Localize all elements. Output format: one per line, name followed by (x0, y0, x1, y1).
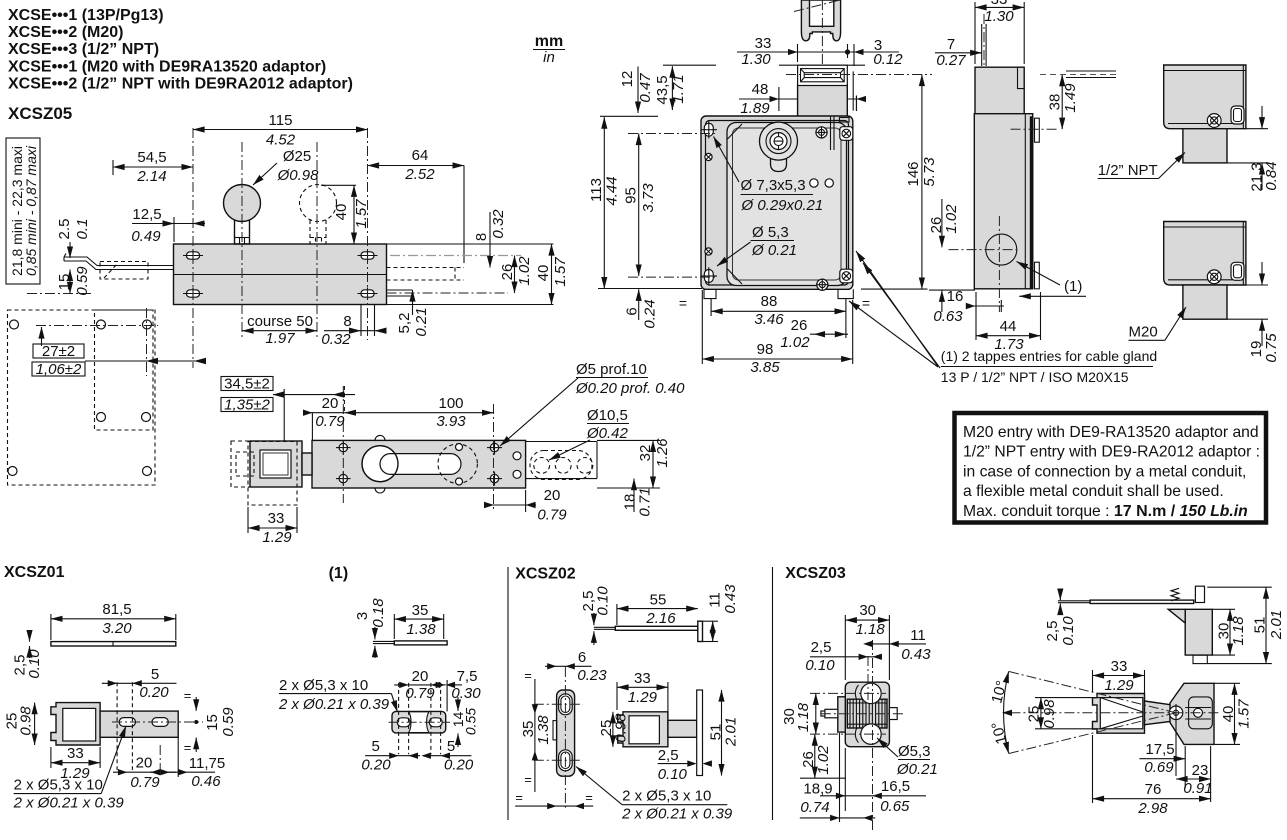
svg-text:Ø 7,3x5,3: Ø 7,3x5,3 (741, 177, 806, 194)
svg-text:(1): (1) (329, 565, 349, 582)
svg-text:course 50: course 50 (247, 313, 313, 330)
dim 5 / 0.20 left (361, 738, 420, 774)
ball actuator (224, 185, 261, 245)
svg-text:0.30: 0.30 (451, 685, 481, 702)
svg-text:=: = (184, 688, 192, 703)
mounting slot top-left (183, 250, 203, 262)
mount oval top-left (701, 121, 717, 139)
svg-text:0.49: 0.49 (131, 228, 161, 245)
svg-text:=: = (862, 295, 870, 311)
svg-text:2 x Ø5,3 x 10: 2 x Ø5,3 x 10 (622, 788, 711, 805)
svg-text:0.69: 0.69 (1144, 759, 1174, 776)
svg-text:43,5: 43,5 (654, 75, 671, 104)
dim 33 / 1.30 head (737, 35, 903, 68)
svg-text:16: 16 (947, 288, 964, 305)
svg-text:2,5: 2,5 (811, 639, 832, 656)
svg-text:1.30: 1.30 (741, 51, 771, 68)
top view head plate (1169, 683, 1214, 744)
svg-text:Ø 0.29x0.21: Ø 0.29x0.21 (741, 197, 824, 214)
mounting slot bottom-left (183, 288, 203, 300)
svg-text:2.5: 2.5 (56, 219, 73, 240)
top plate side view (594, 621, 703, 641)
dim 32 / 1.26 rotated (597, 438, 671, 488)
svg-text:0.63: 0.63 (933, 308, 963, 325)
svg-text:55: 55 (650, 592, 667, 609)
centerlines (821, 713, 904, 715)
body inner margin (706, 121, 849, 286)
svg-text:44: 44 (1000, 318, 1017, 335)
svg-text:0.21: 0.21 (413, 307, 430, 336)
switch body (174, 244, 387, 305)
svg-text:Ø25: Ø25 (283, 148, 311, 165)
plate edge front (697, 690, 703, 776)
svg-text:XCSZ03: XCSZ03 (785, 565, 846, 582)
svg-text:3.46: 3.46 (754, 311, 784, 328)
svg-text:XCSE•••2 (1/2” NPT with DE9RA2: XCSE•••2 (1/2” NPT with DE9RA2012 adapto… (8, 76, 353, 93)
svg-text:0.59: 0.59 (74, 266, 91, 296)
dim 33 / 1.30 top (975, 0, 1024, 64)
swing centerlines 10 deg (1009, 671, 1176, 712)
dim 38 / 1.49 rotated (1011, 75, 1080, 130)
label 1/2" NPT with leader (1098, 153, 1185, 180)
dim 3 / 0.18 rotated (354, 598, 387, 658)
svg-text:Ø5,3: Ø5,3 (898, 743, 931, 760)
svg-text:Ø0.98: Ø0.98 (277, 167, 320, 184)
svg-text:23: 23 (1192, 762, 1209, 779)
dim 20 / 0.79 top (303, 395, 345, 440)
dim 40 / 1.57 rotated (1214, 683, 1253, 744)
clamp block (250, 441, 312, 487)
dim 11 / 0.43 rotated (703, 584, 739, 642)
svg-text:12: 12 (619, 71, 636, 88)
svg-text:0.10: 0.10 (595, 586, 612, 616)
svg-text:1/2” NPT: 1/2” NPT (1098, 162, 1158, 179)
svg-text:98: 98 (757, 341, 774, 358)
svg-text:7,5: 7,5 (457, 668, 478, 685)
horizontal key blade right (1040, 71, 1120, 78)
dim 18 / 0.71 rotated (622, 479, 654, 517)
dim 25 / 0.98 rotated (4, 703, 35, 745)
svg-text:1.89: 1.89 (740, 100, 770, 117)
dashed mounting plate (8, 310, 156, 485)
svg-text:20: 20 (544, 487, 561, 504)
svg-text:0.98: 0.98 (18, 706, 35, 736)
svg-text:76: 76 (1145, 781, 1162, 798)
hinge lines (830, 116, 832, 150)
svg-text:0.55: 0.55 (463, 708, 479, 735)
side body (974, 67, 1032, 289)
svg-text:0.10: 0.10 (805, 657, 835, 674)
mounting slot bottom-right (358, 288, 378, 300)
svg-text:32: 32 (637, 445, 654, 462)
svg-text:2.14: 2.14 (136, 168, 166, 185)
svg-text:2 x Ø5,3 x 10: 2 x Ø5,3 x 10 (279, 677, 368, 694)
plate hole inner-left (97, 320, 106, 329)
dim course 50 / 1.97 (242, 313, 317, 347)
svg-text:3.73: 3.73 (640, 183, 657, 213)
plate hole bottom-left (8, 467, 17, 476)
label (1) with leaders (1017, 262, 1087, 297)
head top edge line (663, 64, 716, 66)
centerline ball (241, 142, 243, 340)
svg-text:1.57: 1.57 (552, 257, 569, 287)
slot ovals (112, 682, 203, 770)
svg-text:0.20: 0.20 (444, 757, 474, 774)
dim 26 / 1.02 rotated (800, 734, 846, 778)
svg-text:35: 35 (412, 602, 429, 619)
svg-text:33: 33 (268, 510, 285, 527)
svg-text:1.30: 1.30 (984, 8, 1014, 25)
mounting slot top-right (358, 250, 378, 262)
thin plate (373, 641, 447, 645)
right tab (889, 708, 897, 720)
side view blade (1058, 600, 1194, 603)
dim 2,5 / 0.10 rotated (580, 586, 612, 645)
svg-text:1/2” NPT entry with DE9-RA2012: 1/2” NPT entry with DE9-RA2012 adaptor : (963, 444, 1260, 461)
svg-text:1.57: 1.57 (1236, 699, 1253, 729)
dim 2,5 / 0.10 rotated (1044, 589, 1077, 646)
svg-text:1.73: 1.73 (994, 336, 1024, 353)
svg-text:2,5: 2,5 (658, 747, 679, 764)
svg-text:0.59: 0.59 (220, 707, 237, 737)
svg-text:5,2: 5,2 (396, 313, 413, 334)
dim 35 / 1.38 (394, 602, 443, 639)
svg-text:(1) 2 tappes entries for cable: (1) 2 tappes entries for cable gland (941, 348, 1157, 364)
svg-text:30: 30 (859, 602, 876, 619)
dim 48 / 1.89 (739, 81, 866, 117)
slot edge extension lines (360, 305, 362, 337)
svg-text:33: 33 (67, 745, 84, 762)
dim 11 / 0.43 (863, 627, 931, 663)
dim 51 / 2.01 rotated (1207, 587, 1285, 663)
svg-text:(1): (1) (1064, 278, 1082, 295)
dim 2.5 / 0.1 rotated (56, 219, 91, 258)
svg-text:0.24: 0.24 (642, 299, 659, 328)
swing arc with arrows (1004, 671, 1009, 753)
bracket arm (668, 720, 697, 737)
svg-text:146: 146 (905, 161, 922, 186)
svg-text:0.27: 0.27 (936, 52, 966, 69)
svg-text:XCSZ02: XCSZ02 (515, 566, 576, 583)
svg-text:1.38: 1.38 (406, 621, 436, 638)
plate hole top-left (10, 320, 19, 329)
key centerline (821, 0, 823, 123)
svg-text:0.98: 0.98 (613, 713, 630, 743)
dashed circle position (438, 444, 477, 486)
svg-text:0.12: 0.12 (873, 51, 903, 68)
dim 44 / 1.73 (976, 292, 1041, 353)
svg-text:1.02: 1.02 (943, 204, 960, 234)
bar hole pair right (O5 prof) (487, 441, 502, 486)
svg-text:7: 7 (947, 36, 955, 53)
side view bracket block (1168, 586, 1212, 663)
svg-text:=: = (524, 772, 532, 787)
plate centerline vertical (146, 308, 148, 376)
svg-text:26: 26 (791, 317, 808, 334)
svg-text:15: 15 (204, 714, 221, 731)
svg-text:51: 51 (1252, 617, 1269, 634)
svg-text:4.52: 4.52 (266, 132, 296, 149)
dim line 34,5 (272, 389, 355, 442)
svg-text:2 x Ø0.21 x 0.39: 2 x Ø0.21 x 0.39 (621, 806, 733, 823)
door panel (727, 123, 847, 286)
big hole + slot (362, 435, 461, 493)
svg-text:6: 6 (578, 649, 586, 666)
bracket arm (100, 711, 178, 737)
dim 113 / 4.44 rotated (588, 116, 702, 288)
svg-text:0.10: 0.10 (1060, 616, 1077, 646)
svg-text:1.18: 1.18 (1230, 616, 1247, 646)
svg-text:0.32: 0.32 (490, 209, 507, 239)
dim 20 / 0.79 (113, 755, 176, 791)
svg-text:2.98: 2.98 (1137, 800, 1168, 817)
dim 55 / 2.16 (617, 592, 698, 628)
head hub circles (760, 122, 798, 171)
head slot centerline horizontal (786, 74, 932, 76)
dim 16 / 0.63 (933, 288, 1004, 325)
plate hole bottom-right (143, 467, 152, 476)
svg-text:0,85 mini - 0,87 maxi: 0,85 mini - 0,87 maxi (23, 145, 39, 276)
svg-text:=: = (585, 790, 593, 805)
cable entry hole (949, 216, 1019, 312)
centerline dashed ball (316, 142, 318, 340)
svg-text:12,5: 12,5 (132, 206, 161, 223)
svg-text:20: 20 (136, 755, 153, 772)
label 2 x O5,3 x 10 with leader (576, 767, 733, 823)
svg-text:0.71: 0.71 (637, 487, 654, 516)
svg-text:3.93: 3.93 (436, 413, 466, 430)
svg-text:=: = (524, 668, 532, 683)
svg-text:5: 5 (372, 738, 380, 755)
label O5 prof.10 with leader (500, 361, 685, 446)
svg-text:5: 5 (447, 738, 455, 755)
actuator blade (980, 14, 987, 100)
dim 16,5 / 0.65 (820, 748, 926, 815)
dim 8 / 0.32 right rotated (473, 209, 507, 268)
svg-text:88: 88 (761, 293, 778, 310)
dim 2,5 / 0.10 plate thickness (658, 747, 712, 783)
label 2 x O5,3 x 10 with leader (13, 726, 126, 812)
svg-text:2 x Ø5,3 x 10: 2 x Ø5,3 x 10 (14, 777, 103, 794)
centerline right slots (367, 128, 369, 340)
top view arm (1145, 701, 1186, 725)
svg-text:1.38: 1.38 (535, 715, 552, 745)
dim 100 / 3.93 (344, 386, 493, 430)
svg-text:XCSE•••1 (M20 with DE9RA13520: XCSE•••1 (M20 with DE9RA13520 adaptor) (8, 58, 326, 75)
svg-text:0.32: 0.32 (321, 331, 351, 348)
pivot centerline (27, 293, 92, 295)
svg-text:40: 40 (333, 204, 350, 221)
svg-text:0.74: 0.74 (800, 799, 829, 816)
svg-text:5: 5 (151, 666, 159, 683)
divider line 2 (772, 567, 774, 820)
svg-text:0.43: 0.43 (722, 584, 739, 614)
svg-text:1.29: 1.29 (1104, 677, 1134, 694)
svg-text:33: 33 (991, 0, 1008, 8)
svg-text:17,5: 17,5 (1145, 741, 1174, 758)
units mm/in (533, 33, 565, 66)
dim line 27+-2 (42, 327, 207, 364)
lever dashed alternate (100, 262, 148, 280)
svg-text:2 x Ø0.21 x 0.39: 2 x Ø0.21 x 0.39 (13, 795, 125, 812)
svg-text:33: 33 (1111, 658, 1128, 675)
svg-text:2 x Ø0.21 x 0.39: 2 x Ø0.21 x 0.39 (278, 696, 390, 713)
dim 12 / 0.47 rotated (619, 67, 654, 114)
svg-text:25: 25 (1026, 706, 1043, 723)
small screw left top (705, 153, 712, 160)
svg-text:113: 113 (588, 178, 605, 202)
dim 98 / 3.85 (702, 290, 852, 376)
dim 15 / 0.59 rotated (184, 688, 237, 755)
svg-text:115: 115 (269, 112, 293, 129)
svg-text:11,75: 11,75 (189, 755, 225, 772)
mount square top-right (840, 127, 853, 141)
svg-text:0.65: 0.65 (880, 798, 910, 815)
svg-text:Ø0.20 prof. 0.40: Ø0.20 prof. 0.40 (575, 380, 685, 397)
svg-text:0.79: 0.79 (537, 507, 567, 524)
svg-text:27±2: 27±2 (42, 343, 75, 360)
svg-text:1.29: 1.29 (262, 529, 292, 546)
dim 25 / 0.98 rotated (1026, 698, 1101, 729)
dim 23 / 0.91 (1176, 746, 1213, 802)
dim 146 / 5.73 rotated (861, 75, 938, 290)
dim 20 / 0.79 (394, 668, 445, 702)
label O7,3x5,3 with leader (714, 137, 834, 215)
dim 18,9 / 0.74 (800, 733, 875, 822)
dashed body square below clamp (248, 442, 297, 506)
dim 81,5 / 3.20 (51, 601, 176, 640)
bar hole pair left (336, 441, 351, 486)
svg-text:=: = (679, 295, 687, 311)
svg-text:18,9: 18,9 (803, 781, 832, 798)
svg-text:1.18: 1.18 (795, 702, 812, 732)
svg-text:1,35±2: 1,35±2 (224, 397, 270, 414)
label M20 with leader (1129, 307, 1187, 341)
svg-text:=: = (184, 740, 192, 755)
dim 33 / 1.29 (51, 745, 100, 782)
svg-text:95: 95 (623, 187, 640, 204)
right strip with dashed holes (526, 442, 597, 480)
svg-text:1,06±2: 1,06±2 (36, 361, 82, 378)
dim 5 / 0.20 right (422, 738, 474, 774)
svg-text:0.84: 0.84 (1263, 161, 1280, 190)
svg-text:0.20: 0.20 (361, 757, 391, 774)
svg-text:1.02: 1.02 (780, 334, 810, 351)
two holes right end (513, 452, 521, 460)
svg-text:XCSE•••3 (1/2” NPT): XCSE•••3 (1/2” NPT) (8, 41, 159, 58)
clamp dashed alternate (231, 441, 254, 487)
svg-text:1.02: 1.02 (815, 745, 832, 775)
svg-text:=: = (515, 790, 523, 805)
plate hole inner-right (143, 320, 152, 329)
svg-text:48: 48 (752, 81, 769, 98)
svg-text:XCSZ01: XCSZ01 (4, 564, 65, 581)
head key slot (798, 65, 857, 116)
svg-text:54,5: 54,5 (137, 149, 166, 166)
svg-text:XCSE•••1 (13P/Pg13): XCSE•••1 (13P/Pg13) (8, 7, 164, 24)
svg-text:a flexible metal conduit shall: a flexible metal conduit shall be used. (963, 483, 1224, 500)
label O5,3 with leader (717, 224, 797, 266)
svg-text:Ø 0.21: Ø 0.21 (751, 242, 797, 259)
top view fork (1093, 694, 1145, 734)
svg-text:0.79: 0.79 (405, 685, 435, 702)
dim 7,5 / 0.30 (436, 668, 482, 711)
svg-text:M20 entry with DE9-RA13520 ada: M20 entry with DE9-RA13520 adaptor and (963, 424, 1259, 441)
svg-text:33: 33 (634, 670, 651, 687)
dim 2,5 / 0.10 (805, 639, 882, 674)
svg-text:3.85: 3.85 (750, 359, 780, 376)
svg-text:1.97: 1.97 (265, 330, 295, 347)
dim 11,75 / 0.46 (150, 737, 225, 790)
svg-text:40: 40 (535, 265, 552, 282)
thin plate top view (51, 642, 176, 646)
label 2 x O5,3 x 10 with leader (278, 677, 398, 713)
svg-text:XCSZ05: XCSZ05 (8, 104, 72, 123)
dim 30 / 1.18 top (845, 602, 889, 680)
dim 19 / 0.75 rotated (1227, 262, 1280, 363)
dim 12,5 / 0.49 (131, 206, 205, 245)
dim 51 / 2.01 rotated (708, 690, 740, 776)
svg-text:2,5: 2,5 (1044, 621, 1061, 642)
svg-text:1.57: 1.57 (353, 199, 370, 229)
svg-text:Ø5 prof.10: Ø5 prof.10 (576, 361, 647, 378)
svg-text:0.98: 0.98 (1041, 699, 1058, 729)
svg-text:1.29: 1.29 (628, 689, 658, 706)
svg-text:1.71: 1.71 (670, 74, 687, 103)
body feet (704, 289, 853, 298)
top-right vent tab (839, 118, 849, 123)
clamp plate bottom view (389, 683, 450, 754)
svg-text:20: 20 (322, 395, 339, 412)
svg-text:3: 3 (354, 612, 371, 620)
svg-text:64: 64 (412, 147, 429, 164)
dim 5 / 0.20 (102, 666, 177, 701)
svg-text:0.75: 0.75 (1263, 333, 1280, 363)
svg-text:1.26: 1.26 (654, 438, 671, 468)
dim 14 / 0.55 rotated (450, 697, 479, 747)
dim 115 / 4.52 (193, 112, 368, 149)
boxed dim 27+-2 (32, 343, 85, 378)
bracket block (51, 703, 100, 745)
svg-text:mm: mm (535, 33, 563, 50)
svg-text:Ø0.42: Ø0.42 (586, 425, 629, 442)
svg-text:5.73: 5.73 (921, 157, 938, 187)
svg-text:81,5: 81,5 (102, 601, 131, 618)
svg-text:0.1: 0.1 (74, 219, 91, 240)
actuator key top (794, 0, 841, 41)
dim 26 / 1.02 side rotated (928, 199, 975, 312)
svg-text:0.79: 0.79 (315, 413, 345, 430)
side mounting plate (534, 667, 583, 808)
dim 7 / 0.27 (935, 36, 982, 69)
svg-text:38: 38 (1047, 94, 1064, 111)
svg-text:100: 100 (438, 395, 463, 412)
svg-text:34,5±2: 34,5±2 (224, 376, 270, 393)
dim 33 / 1.29 (617, 670, 668, 718)
ball actuator dashed (alternate position) (300, 185, 337, 245)
dim 6 / 0.23 (545, 649, 607, 684)
phillips screw top (816, 127, 827, 138)
boxed note 21,8 mini - 22,3 maxi rotated (6, 138, 40, 284)
svg-text:4.44: 4.44 (604, 176, 621, 205)
dim 30 / 1.18 rotated (1212, 609, 1247, 655)
svg-text:0.10: 0.10 (658, 766, 688, 783)
plate hole bottom-mid (97, 413, 106, 422)
spring band (847, 683, 887, 744)
dim 8 / 0.32 below body (321, 313, 386, 348)
label D25 / D0.98 with leader (253, 148, 319, 185)
svg-text:XCSE•••2 (M20): XCSE•••2 (M20) (8, 24, 124, 41)
